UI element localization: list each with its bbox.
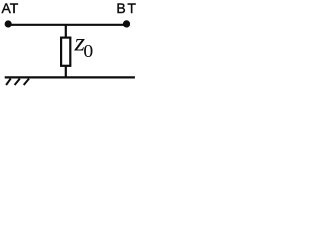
wire top AT to BT	[8, 24, 127, 26]
svg-text:BT: BT	[116, 0, 137, 16]
label z0 value	[73, 28, 93, 61]
ground hatch stroke 1	[6, 79, 11, 85]
wire lead from z0 box to ground bus	[65, 66, 67, 78]
terminal dot BT	[123, 20, 130, 27]
svg-text:0: 0	[83, 42, 93, 62]
svg-text:AT: AT	[2, 0, 19, 16]
terminal dot AT	[5, 20, 12, 27]
impedance box z0	[61, 38, 70, 66]
ground hatch stroke 2	[15, 79, 20, 85]
ground hatch stroke 3	[24, 79, 29, 85]
ground bus wire	[5, 76, 135, 78]
wire lead from top bus to z0 box	[65, 25, 67, 38]
